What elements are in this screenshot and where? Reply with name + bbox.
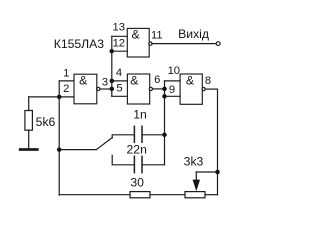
inverter bubble gate2: [149, 87, 152, 90]
svg-text:&: &: [131, 28, 140, 42]
svg-text:2: 2: [63, 83, 69, 95]
svg-text:10: 10: [168, 65, 180, 77]
wire capacitor C1 right: [142, 134, 164, 136]
wire left rail vertical: [58, 97, 60, 195]
wire pin5 stub gate2: [112, 95, 128, 97]
svg-text:3: 3: [102, 76, 108, 88]
ground: [20, 148, 37, 151]
svg-text:Вихід: Вихід: [178, 27, 209, 41]
svg-text:9: 9: [169, 84, 175, 96]
junction node switch common: [57, 147, 62, 152]
junction node gate1 input: [57, 95, 62, 100]
junction node gate1 out to gate2 in: [110, 87, 115, 92]
svg-text:5k6: 5k6: [36, 115, 56, 129]
wire bottom rail: [59, 194, 130, 196]
wire to resistor R1: [28, 97, 30, 111]
wire pin9 stub gate3: [165, 95, 181, 97]
inverter bubble gate4: [149, 42, 152, 45]
svg-text:30: 30: [130, 176, 144, 190]
wire capacitor C2 right: [142, 164, 164, 166]
svg-text:22n: 22n: [127, 142, 147, 156]
svg-text:&: &: [130, 73, 139, 87]
svg-text:8: 8: [205, 75, 211, 87]
svg-text:5: 5: [116, 82, 122, 94]
resistor R1 5k6: [25, 111, 33, 131]
capacitor C2 plates 22n: [134, 156, 142, 172]
wire wiper vertical: [195, 172, 197, 180]
svg-text:11: 11: [151, 30, 163, 42]
junction node pin9 bridge: [162, 94, 167, 99]
output terminal circle: [216, 42, 220, 46]
junction node pin12/bridge: [109, 49, 114, 54]
inverter bubble gate1: [97, 87, 100, 90]
junction node wiper: [215, 170, 220, 175]
wire pin3 output gate1: [100, 88, 112, 90]
wire pin11 output gate4 to terminal: [152, 43, 216, 45]
wire capacitor C1 left stub: [112, 135, 134, 138]
svg-text:К155ЛА3: К155ЛА3: [54, 37, 105, 51]
potentiometer wiper arrow: [193, 180, 200, 192]
op-amp U1 gate DD1.3 body: [180, 74, 202, 104]
svg-text:&: &: [79, 73, 88, 87]
wire resistor R2 to potentiometer: [150, 194, 185, 196]
wire capacitor C2 left stub: [112, 155, 134, 165]
wire potentiometer right terminal: [205, 194, 218, 196]
svg-text:12: 12: [113, 38, 125, 50]
wire pin12 stub gate4: [112, 50, 128, 52]
op-amp U1 gate DD1.2 body: [127, 74, 149, 104]
wire switch common: [59, 149, 96, 151]
svg-text:1n: 1n: [133, 108, 147, 122]
wire pin13 stub gate4: [112, 35, 128, 37]
wire pin6 output gate2: [153, 88, 165, 90]
wire bridge gate4/gate2 inputs vertical: [111, 36, 113, 96]
op-amp U1 gate DD1.1 body: [74, 74, 97, 104]
wire switch lever: [96, 138, 112, 150]
wire wiper horizontal: [196, 171, 217, 173]
svg-text:13: 13: [112, 22, 124, 34]
wire pin8 output gate3: [205, 88, 217, 90]
op-amp U1 gate DD1.4 body: [127, 28, 149, 57]
wire bridge gate3 inputs down to capacitors: [164, 81, 166, 165]
wire resistor R1 to ground: [28, 130, 30, 148]
junction node gate2 out to gate3 in: [162, 87, 167, 92]
wire pin2 stub gate1: [29, 96, 74, 98]
wire pin10 stub gate3: [165, 80, 181, 82]
wire right feedback vertical: [217, 89, 219, 195]
capacitor C1 plates 1n: [134, 126, 142, 142]
junction node capacitor C1 right: [162, 133, 167, 138]
svg-text:3k3: 3k3: [184, 154, 204, 168]
wire pin1 stub gate1: [59, 80, 74, 82]
resistor R2 30: [130, 192, 150, 198]
svg-text:4: 4: [116, 67, 122, 79]
inverter bubble gate3: [202, 88, 205, 91]
svg-text:&: &: [186, 74, 195, 88]
junction node pin4: [110, 79, 115, 84]
svg-text:1: 1: [63, 67, 69, 79]
potentiometer R3 3k3 body: [185, 192, 205, 198]
svg-text:6: 6: [154, 74, 160, 86]
wire pin4 stub gate2: [112, 80, 128, 82]
wire bridge gate1 inputs: [58, 81, 60, 97]
